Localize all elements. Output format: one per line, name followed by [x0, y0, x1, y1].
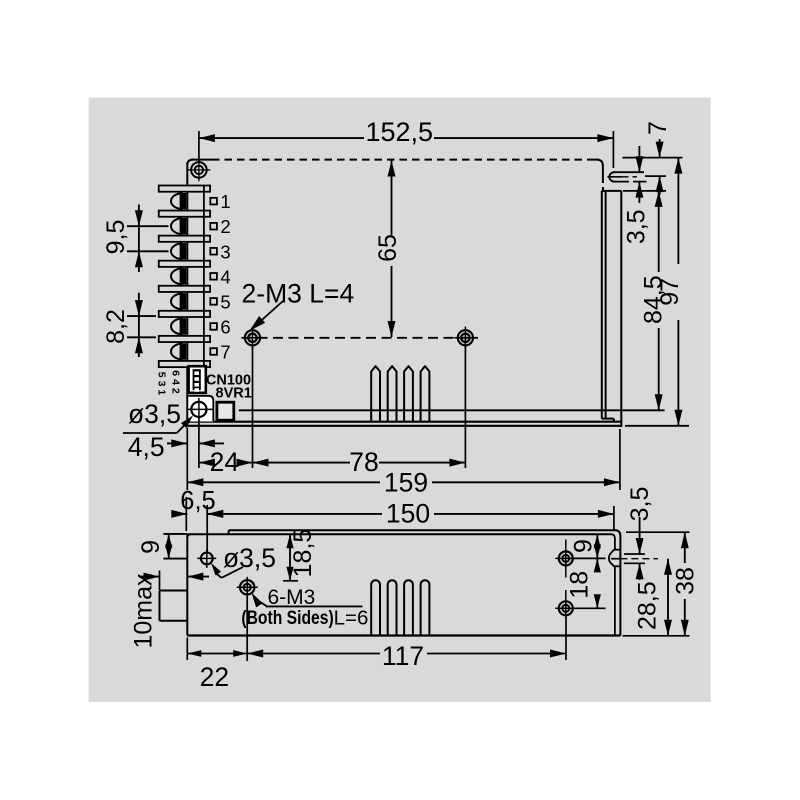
svg-text:(Both Sides): (Both Sides) — [241, 608, 333, 629]
ext tick top right y=157.6 — [623, 157, 683, 159]
svg-text:642: 642 — [170, 370, 182, 397]
svg-text:9: 9 — [137, 540, 165, 554]
ext line M3 left down — [252, 346, 254, 468]
side hole right row2 — [559, 601, 573, 615]
side hole M3 bottom-left 6-M3 — [240, 580, 254, 594]
terminal block divider bars x8 — [159, 186, 210, 192]
top view: case left edge — [186, 163, 188, 422]
dim 18,5 bottom tick — [283, 580, 298, 582]
dim 9,5 tick upper — [127, 225, 169, 227]
top view: top edge solid segment right — [594, 159, 599, 161]
side hook notch pointed left end — [609, 550, 614, 567]
dim 152,5 line with inside arrows — [199, 137, 364, 139]
dim 38 line inside arrows — [684, 532, 686, 563]
ext line flange right down — [619, 429, 621, 490]
dim 6,5 outside arrows — [173, 513, 187, 515]
svg-text:2-M3 L=4: 2-M3 L=4 — [242, 279, 355, 309]
hook tab bottom line (top view) — [613, 181, 630, 183]
svg-text:6: 6 — [220, 316, 230, 337]
svg-text:8,2: 8,2 — [102, 309, 130, 344]
svg-text:7: 7 — [644, 121, 672, 135]
case bottom edge upper line (top view) — [187, 421, 622, 423]
ext tick side top right y=532 — [626, 531, 690, 533]
svg-text:159: 159 — [384, 467, 428, 497]
dim 18 line inside arrows — [596, 558, 598, 570]
side view: right edge — [619, 535, 621, 636]
side hole right row1 — [559, 551, 573, 565]
svg-text:ø3,5: ø3,5 — [128, 399, 181, 429]
side view: left edge — [186, 534, 188, 635]
ext tick y=426 for dim 97 — [625, 425, 689, 427]
ext line left edge down — [186, 428, 188, 491]
svg-text:38: 38 — [671, 567, 699, 595]
side view: upper cover line with step — [229, 529, 615, 531]
dim 8,2 tick lower — [127, 336, 156, 338]
svg-text:2: 2 — [220, 216, 230, 237]
right flange bottom step (top view) — [602, 418, 614, 420]
ext line 10max — [159, 571, 161, 591]
inner cutout white region bottom-left (top view) — [188, 396, 213, 422]
mounting hole top-left oc3.5 — [191, 162, 207, 178]
dim 9,5 tick lower — [127, 250, 169, 252]
svg-text:6-M3: 6-M3 — [268, 586, 316, 609]
top view: top edge dashed (cover line) — [212, 159, 594, 161]
dim 8,2 vertical line — [138, 293, 140, 357]
ext line side left edge up — [185, 497, 187, 531]
dim 8,2 tick upper — [127, 315, 156, 317]
svg-text:97: 97 — [656, 278, 684, 306]
terminal screws (semicircle + slot) x7 — [171, 193, 183, 209]
dim 10max outside arrows — [139, 576, 160, 578]
svg-text:1: 1 — [220, 191, 230, 212]
terminal protrusion left (side view) — [160, 590, 188, 592]
dim 24 line inside arrows — [199, 462, 207, 464]
case bottom edge lower line (top view) — [187, 425, 622, 427]
svg-text:9,5: 9,5 — [102, 220, 130, 255]
dim 4,5 outside arrows — [167, 442, 187, 444]
dim 78 line inside arrows — [253, 462, 351, 464]
ext tick y=176.1 for dim 7 — [645, 175, 666, 177]
svg-text:7: 7 — [220, 341, 230, 362]
top view: right corner vertical dashed (hidden) — [602, 176, 604, 191]
ext tick y=181.6 for dim 3,5 — [633, 181, 647, 183]
svg-text:22: 22 — [200, 662, 229, 692]
M3 hole left 2-M3 — [245, 330, 260, 345]
dim 150 line inside arrows — [207, 513, 382, 515]
leader underline 6-M3 — [266, 605, 363, 607]
top view: 152.5 extension line from right corner — [612, 131, 614, 168]
svg-text:10max: 10max — [130, 573, 158, 649]
right flange inner line (top view) — [605, 191, 607, 419]
svg-text:9: 9 — [570, 539, 598, 553]
side hook centre line dashed ext — [620, 558, 658, 560]
top view: top-right corner arc — [597, 160, 603, 166]
dim 3,5 outside arrows (top view) — [638, 146, 640, 172]
dim 3,5 side outside arrows — [639, 517, 641, 554]
connector CN100 body — [189, 366, 206, 393]
dim 159 line inside arrows — [187, 481, 380, 483]
ext line side hole2 below — [565, 617, 567, 660]
svg-text:18: 18 — [566, 571, 594, 599]
svg-text:5: 5 — [220, 291, 230, 312]
dim 117 line inside arrows — [247, 653, 380, 655]
dim 9 right line inside arrows — [596, 534, 598, 558]
svg-text:ø3,5: ø3,5 — [223, 543, 276, 573]
leader arrow to left M3 hole — [259, 301, 283, 323]
side view: top edge — [187, 533, 611, 535]
dim 9 right ticks — [573, 557, 606, 559]
mounting hole bottom-left oc3.5 — [191, 402, 206, 417]
top view: top edge solid segment left — [191, 159, 212, 161]
svg-text:65: 65 — [374, 234, 402, 262]
side hook notch bottom line — [614, 565, 621, 567]
ext line side M3 below — [246, 596, 248, 661]
dim 18 tick lower — [573, 607, 606, 609]
svg-text:3,5: 3,5 — [626, 487, 654, 522]
dim 9,5 vertical line — [138, 205, 140, 273]
side view: top-right corner arc — [615, 530, 620, 536]
svg-text:28,5: 28,5 — [633, 581, 661, 630]
svg-text:3: 3 — [220, 241, 230, 262]
ext line 150 right — [613, 506, 615, 530]
hook tab centre line solid (top view) — [608, 176, 622, 178]
svg-text:150: 150 — [386, 499, 430, 529]
top view: right corner vertical solid — [602, 165, 604, 176]
svg-text:4,5: 4,5 — [128, 432, 165, 462]
dim 18,5 line inside arrows — [289, 534, 291, 581]
side hook notch top line — [614, 549, 621, 551]
terminal pin squares x7 — [210, 198, 217, 205]
side hook centre line solid — [611, 558, 620, 560]
svg-text:117: 117 — [382, 641, 424, 671]
dim 8,2 arrows outside — [135, 300, 143, 316]
svg-text:18,5: 18,5 — [289, 529, 317, 578]
hook tab rounded left end (top view) — [609, 172, 614, 181]
dim 65 line with outside text gap — [391, 161, 393, 236]
right flange outer rect (top view) — [602, 190, 622, 192]
ext line side hole left up — [206, 505, 208, 552]
leader V to side left hole — [222, 567, 244, 578]
case inner bottom line (top view) — [239, 409, 665, 411]
dim 152,5 extension line left — [198, 131, 200, 163]
side view: inner right corner — [611, 534, 615, 550]
top view: top-left corner arc — [187, 160, 193, 165]
ext line M3 right down — [464, 346, 466, 468]
drawing background panel — [89, 98, 711, 702]
ext tick side bottom right y=635.8 — [623, 635, 690, 637]
M3 hole right 2-M3 — [458, 330, 473, 345]
M3 holes centre dashed line — [242, 337, 478, 339]
side view: inner right vertical lower — [614, 566, 616, 635]
svg-text:152,5: 152,5 — [366, 117, 434, 147]
dim 7 outside arrows — [659, 139, 661, 158]
dim 28,5 line inside arrows — [667, 559, 669, 636]
dim 22 line inside arrows — [187, 653, 247, 655]
heat sink fins (top view) x4 — [371, 366, 380, 422]
leader arrow to side M3 hole — [257, 600, 267, 606]
leader arrow to bottom-left hole — [123, 432, 177, 434]
dim 3,5 side ticks — [624, 553, 645, 555]
svg-text:6,5: 6,5 — [180, 487, 215, 515]
terminal block body right edge — [203, 186, 205, 368]
svg-text:3,5: 3,5 — [622, 209, 650, 244]
dim 9 left ticks — [163, 533, 187, 535]
potentiometer VR1 square — [217, 402, 234, 420]
dim 9,5 arrows outside — [135, 210, 143, 226]
svg-text:4: 4 — [220, 266, 230, 287]
connector CN100 pin ladder — [193, 369, 201, 390]
svg-text:78: 78 — [349, 447, 378, 477]
svg-text:24: 24 — [210, 447, 239, 477]
side view: bottom edge — [187, 634, 620, 636]
dim 97 line inside arrows — [677, 158, 679, 264]
ext line hole centre down — [198, 418, 200, 468]
svg-text:531: 531 — [156, 372, 168, 399]
ext line side left edge below — [186, 638, 188, 661]
dim 9 left line inside arrows — [168, 534, 170, 559]
hook tab top line (top view) — [613, 171, 645, 173]
svg-text:8VR1: 8VR1 — [216, 386, 252, 402]
svg-text:L=6: L=6 — [334, 607, 369, 630]
side hole left oc3,5 — [201, 553, 213, 565]
heat sink fins (side view) x4 — [371, 580, 380, 635]
dim 84,5 line inside arrows — [658, 191, 660, 272]
side view: top-left corner — [187, 534, 191, 537]
ext tick y=190.9 for dim 84,5 — [623, 190, 666, 192]
hook tab centre line dashed ext (top view) — [622, 176, 638, 178]
